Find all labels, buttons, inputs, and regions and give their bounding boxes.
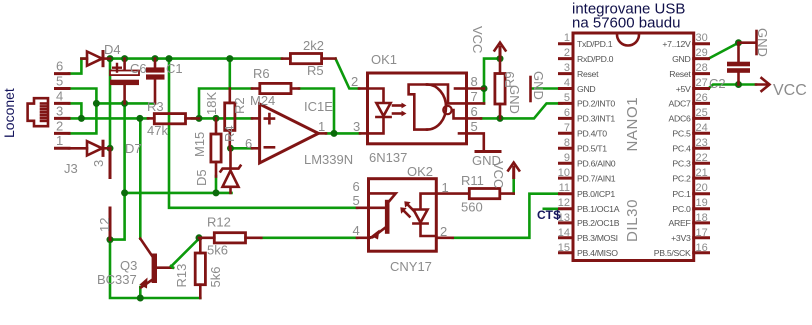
svg-text:560: 560 [461, 200, 483, 215]
svg-text:C1: C1 [166, 61, 183, 76]
svg-text:D7: D7 [125, 141, 142, 156]
svg-text:5: 5 [564, 92, 570, 104]
wire OK2 pin2 to NANO pin11 [453, 194, 562, 238]
resistor R4 M15 (vertical) [211, 118, 221, 176]
OK2 LED light arrows [400, 201, 413, 216]
svg-text:ADC6: ADC6 [669, 114, 691, 124]
wire J3 pin4 down to pin3 net [69, 103, 81, 118]
wire R12 to OK2 pin4 [261, 237, 357, 240]
resistor R2 18K (vertical) [225, 89, 235, 149]
wire NANO pin4 to GND symbol [532, 87, 562, 90]
wire R5 to OK1 pin2 [336, 59, 360, 89]
svg-text:RxD/PD.0: RxD/PD.0 [577, 54, 614, 64]
svg-text:GND: GND [531, 71, 546, 100]
svg-text:VCC: VCC [491, 161, 506, 188]
svg-text:26: 26 [696, 92, 708, 104]
svg-text:11: 11 [559, 182, 570, 194]
svg-text:5k6: 5k6 [207, 243, 228, 258]
svg-text:PC.4: PC.4 [672, 144, 691, 154]
svg-text:29: 29 [696, 47, 708, 59]
ground symbol top right [755, 31, 758, 54]
svg-text:4: 4 [564, 77, 570, 89]
LM339 power pin 3 (V+) [109, 148, 112, 177]
wire V+ column D4 cathode to D7 cathode [109, 59, 112, 149]
svg-text:12: 12 [97, 218, 112, 232]
resistor R11 560 [469, 189, 513, 199]
svg-text:PD.6/AIN0: PD.6/AIN0 [577, 159, 616, 169]
wire V+ rail down to OK2 pin5 [169, 59, 357, 208]
NANO left pin stubs 1-15 [560, 44, 574, 253]
svg-text:PD.2/INT0: PD.2/INT0 [577, 99, 615, 109]
NANO right pin numbers [696, 32, 708, 254]
resistor R13 5k6 (vertical) [195, 238, 205, 298]
OK2 pin2 lead [436, 237, 452, 240]
svg-text:+5V: +5V [676, 84, 691, 94]
wire Q3 collector column [139, 118, 142, 238]
svg-text:9: 9 [564, 152, 570, 164]
svg-text:VCC: VCC [470, 26, 485, 53]
svg-text:2k2: 2k2 [303, 38, 324, 53]
svg-text:R11: R11 [461, 173, 484, 188]
wire GND bottom rail [110, 240, 200, 298]
svg-text:D4: D4 [104, 42, 121, 57]
wire GND column to J3 pin2 [69, 103, 96, 133]
diode D7 [69, 141, 110, 155]
svg-text:PC.1: PC.1 [672, 189, 691, 199]
svg-text:C6: C6 [130, 61, 147, 76]
svg-text:17: 17 [696, 227, 708, 239]
svg-text:5: 5 [353, 193, 360, 208]
svg-text:5: 5 [56, 73, 63, 88]
wire mid GND run [125, 192, 232, 195]
svg-text:GND: GND [755, 28, 770, 57]
OK2 pin4 lead [357, 237, 370, 240]
NANO1 DIL30 box [573, 33, 694, 261]
wire +input up to R6 left [199, 89, 252, 119]
svg-text:1: 1 [318, 119, 325, 134]
svg-text:21: 21 [696, 167, 708, 179]
wire R11 up to VCC arrow [512, 177, 515, 194]
svg-text:R4: R4 [222, 125, 237, 142]
svg-text:PB.2/OC1B: PB.2/OC1B [577, 218, 620, 228]
ground symbol at OK1 pin5 [476, 150, 500, 153]
resistor R12 5k6 [199, 233, 261, 243]
svg-text:M24: M24 [250, 93, 275, 108]
svg-text:VCC: VCC [773, 82, 807, 99]
wire -input [231, 147, 253, 150]
svg-text:2: 2 [440, 224, 447, 239]
zener diode D5 [221, 148, 241, 193]
svg-text:5: 5 [471, 119, 478, 134]
wire Q3 base diagonal [173, 239, 199, 265]
wire J3 pin3 to R3 [69, 117, 148, 120]
wire J3 pin6 to D4 anode [69, 59, 86, 74]
svg-text:27: 27 [696, 77, 708, 89]
VCC arrow right (pin27) [756, 78, 770, 91]
wire R3 to comparator +input [192, 117, 252, 120]
NANO left pin numbers [558, 32, 570, 254]
OK1 internal gate [409, 85, 467, 134]
ground symbol at NANO pin4 [529, 77, 532, 101]
connector J3 jack symbol [28, 98, 48, 126]
connector J3 pin stubs [56, 74, 70, 149]
svg-text:TxD/PD.1: TxD/PD.1 [577, 39, 613, 49]
svg-text:3: 3 [353, 119, 360, 134]
wire OK1 pin6 / R9 bottom to NANO pin5 [481, 103, 562, 118]
svg-text:R12: R12 [207, 215, 231, 230]
svg-text:IC1E: IC1E [304, 99, 333, 114]
wire R4 bottom to GND [215, 176, 218, 193]
svg-text:R13: R13 [174, 264, 189, 288]
svg-text:OK2: OK2 [407, 164, 433, 179]
svg-text:PD.4/T0: PD.4/T0 [577, 129, 607, 139]
svg-text:6: 6 [471, 104, 478, 119]
optocoupler OK2 box [369, 179, 437, 252]
label J3 pin numbers [56, 59, 63, 149]
svg-text:Reset: Reset [577, 69, 599, 79]
svg-text:PB.0/ICP1: PB.0/ICP1 [577, 189, 615, 199]
svg-text:J3: J3 [64, 161, 78, 176]
svg-text:PC.5: PC.5 [672, 129, 691, 139]
wire CTS net stub [544, 208, 562, 211]
svg-text:M15: M15 [192, 132, 207, 157]
OK1 pin2 lead [359, 87, 368, 90]
svg-text:2: 2 [564, 47, 570, 59]
OK1 pin5 lead to ground [467, 133, 484, 150]
svg-text:47k: 47k [147, 123, 168, 138]
svg-text:LM339N: LM339N [304, 152, 353, 167]
OK1 pin6 lead [467, 117, 482, 120]
svg-text:12: 12 [558, 197, 570, 209]
svg-text:18K: 18K [204, 92, 219, 115]
svg-text:4: 4 [353, 223, 360, 238]
svg-text:D5: D5 [194, 169, 209, 186]
OK1 internal LED [368, 89, 391, 134]
wire pin29 node to GND symbol [739, 41, 756, 44]
svg-text:ADC7: ADC7 [669, 99, 691, 109]
capacitor C2 [727, 43, 750, 85]
svg-text:na 57600 baudu: na 57600 baudu [572, 15, 680, 32]
svg-text:14: 14 [558, 227, 570, 239]
svg-text:PB.4/MISO: PB.4/MISO [577, 248, 618, 258]
svg-text:AREF: AREF [669, 218, 691, 228]
svg-text:5k6: 5k6 [208, 267, 223, 288]
svg-text:6N137: 6N137 [369, 150, 407, 165]
svg-text:2: 2 [351, 74, 358, 89]
svg-text:30: 30 [696, 32, 708, 44]
diode D4 [81, 52, 110, 66]
svg-text:+7..12V: +7..12V [662, 39, 691, 49]
svg-text:+3V3: +3V3 [671, 233, 691, 243]
wire Q3 emitter to bottom rail [139, 287, 142, 298]
capacitor C6 (polarized) [110, 59, 139, 104]
svg-text:PB.5/SCK: PB.5/SCK [654, 248, 691, 258]
svg-text:R5: R5 [307, 63, 324, 78]
svg-text:C2: C2 [709, 76, 726, 91]
VCC arrow above R11 [508, 163, 519, 178]
OK1 LED light arrows [393, 103, 407, 117]
svg-text:PD.7/AIN1: PD.7/AIN1 [577, 173, 616, 183]
OK2 phototransistor [369, 200, 390, 240]
svg-text:R2: R2 [232, 97, 247, 114]
svg-text:20: 20 [696, 182, 708, 194]
capacitor C1 [146, 59, 165, 104]
svg-text:CNY17: CNY17 [390, 259, 432, 274]
resistor R5 2k2 [282, 54, 336, 64]
svg-text:7: 7 [471, 89, 478, 104]
svg-text:3: 3 [56, 103, 63, 118]
OK1 pin3 lead [360, 132, 368, 135]
svg-text:15: 15 [558, 242, 570, 254]
resistor R6 M24 [252, 83, 299, 93]
svg-text:GND: GND [577, 84, 595, 94]
optocoupler OK1 box [368, 73, 467, 144]
OK2 pin1 lead to R11 [436, 192, 469, 195]
svg-text:22: 22 [696, 152, 708, 164]
OK2 internal LED [413, 194, 436, 236]
svg-text:Loconet: Loconet [1, 88, 17, 138]
svg-text:Reset: Reset [669, 69, 691, 79]
svg-text:16: 16 [696, 242, 708, 254]
NANO right pin stubs 30-16 [694, 44, 709, 253]
svg-text:8: 8 [471, 74, 478, 89]
svg-text:24: 24 [696, 122, 708, 134]
wire R6 right to output node [299, 89, 334, 134]
svg-text:PC.2: PC.2 [672, 173, 691, 183]
LM339 power pin 12 (GND) [109, 208, 112, 240]
svg-text:25: 25 [696, 107, 708, 119]
svg-text:6: 6 [564, 107, 570, 119]
wire V+ top rail [110, 57, 282, 60]
resistor R3 47k [148, 114, 199, 124]
svg-text:7: 7 [564, 122, 570, 134]
svg-text:GND: GND [672, 54, 690, 64]
svg-text:1: 1 [442, 180, 449, 195]
svg-text:PB.3/MOSI: PB.3/MOSI [577, 233, 618, 243]
NANO right pin names [654, 39, 692, 258]
svg-text:6: 6 [353, 179, 360, 194]
resistor R9 (vertical) [495, 59, 505, 119]
svg-text:4: 4 [56, 88, 63, 103]
svg-text:DIL30: DIL30 [624, 199, 641, 242]
wire GND row [96, 102, 155, 105]
svg-text:19: 19 [696, 197, 708, 209]
junction dots [107, 55, 114, 62]
OK2 pin6 stub (base) [369, 193, 396, 202]
op-amp IC1E LM339N [252, 104, 326, 163]
svg-text:Q3: Q3 [120, 258, 137, 273]
wire GND drop to LM339 pin12 [110, 193, 125, 240]
OK2 pin5 lead (collector) [357, 207, 385, 210]
svg-text:PD.3/INT1: PD.3/INT1 [577, 114, 615, 124]
svg-text:3: 3 [564, 62, 570, 74]
wire VCC node to OK1 pin8 and pin7 [484, 59, 499, 104]
svg-text:PC.0: PC.0 [672, 204, 691, 214]
svg-text:OK1: OK1 [371, 52, 397, 67]
svg-text:BC337: BC337 [97, 272, 137, 287]
svg-text:23: 23 [696, 137, 708, 149]
wire NANO pin27 to VCC arrow [709, 85, 757, 89]
svg-text:1: 1 [56, 133, 63, 148]
svg-text:2: 2 [56, 118, 63, 133]
wire R2 top to V+ rail [229, 59, 232, 89]
svg-text:R3: R3 [147, 99, 164, 114]
svg-text:8: 8 [564, 137, 570, 149]
svg-text:NANO1: NANO1 [624, 97, 641, 152]
wire NANO pin29 diagonal to GND [709, 43, 739, 59]
svg-text:28: 28 [696, 62, 708, 74]
svg-text:PD.5/T1: PD.5/T1 [577, 144, 607, 154]
svg-text:R6: R6 [253, 66, 270, 81]
OK1 pin8 lead [467, 87, 485, 90]
svg-text:10: 10 [558, 167, 570, 179]
wire J3 pin5 to GND column [69, 89, 96, 104]
svg-text:1: 1 [564, 32, 570, 44]
svg-text:3: 3 [91, 160, 106, 167]
NANO left pin names [577, 39, 620, 258]
svg-text:6: 6 [245, 136, 252, 151]
svg-text:PC.3: PC.3 [672, 159, 691, 169]
svg-text:GND: GND [507, 85, 522, 114]
VCC arrow above R9 [495, 43, 506, 59]
OK1 pin7 lead [467, 102, 485, 105]
svg-text:6: 6 [56, 59, 63, 74]
svg-text:PB.1/OC1A: PB.1/OC1A [577, 204, 620, 214]
wire C6 bottom to mid GND wire [123, 103, 126, 192]
transistor Q3 BC337 [139, 239, 173, 289]
svg-text:18: 18 [696, 212, 708, 224]
wire comparator output to OK1 pin3 [326, 132, 360, 135]
svg-text:13: 13 [558, 212, 570, 224]
